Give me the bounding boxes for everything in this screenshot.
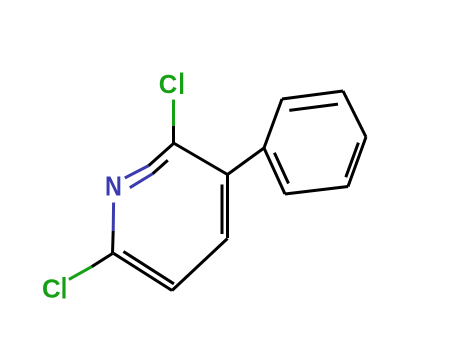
phenyl bond P3'-P4' — [343, 91, 366, 137]
bond C2-Cl (to top chlorine) — [172, 100, 175, 126]
phenyl bond P1'-P2' — [264, 99, 282, 148]
phenyl bond P4'=P5' inner line — [346, 143, 359, 178]
bond C6-Cl (to bottom chlorine) — [92, 254, 113, 267]
phenyl bond P5'-P6' — [285, 187, 348, 195]
bond N=C2 inner line — [130, 174, 153, 188]
svg-text:l: l — [178, 67, 185, 100]
phenyl bond P4'=P5' — [348, 137, 366, 187]
bond C3-phenyl C1' — [228, 148, 265, 175]
bond N=C2 outer line — [125, 166, 149, 179]
phenyl bond P6'=P1' — [264, 148, 285, 194]
bond N-C6 — [112, 203, 115, 232]
svg-text:N: N — [105, 171, 122, 201]
bond C3=C4 inner line — [221, 185, 224, 235]
svg-text:C: C — [42, 275, 61, 303]
phenyl bond P2'=P3' inner line — [289, 104, 338, 110]
svg-text:l: l — [61, 272, 68, 305]
bond C2-C3 — [174, 143, 228, 175]
svg-text:C: C — [159, 71, 177, 99]
bond C3=C4 outer line — [226, 175, 229, 239]
bond C5=C6 outer line — [114, 253, 173, 290]
phenyl bond P2'=P3' — [282, 91, 343, 99]
bond C5=C6 inner line — [123, 252, 173, 284]
phenyl bond P6'=P1' inner line — [274, 153, 288, 184]
bond C4-C5 — [172, 239, 228, 291]
